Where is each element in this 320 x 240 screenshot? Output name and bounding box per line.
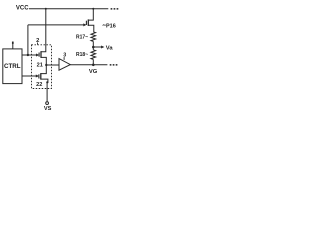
svg-text:R17~: R17~ xyxy=(76,34,88,40)
svg-text:P16: P16 xyxy=(106,24,116,30)
pointer line from label 3 to op-amp xyxy=(63,57,65,60)
svg-text:VG: VG xyxy=(89,69,98,75)
arrowhead into Q22 gate xyxy=(36,75,39,78)
svg-text:22: 22 xyxy=(36,82,42,88)
resistor R17 xyxy=(91,32,96,42)
transistor P16 channel bar xyxy=(87,19,89,26)
pointer line from label 2 to box xyxy=(37,43,39,45)
junction dot node Va xyxy=(92,46,95,49)
wire node to op-amp input xyxy=(46,64,59,66)
transistor P16 gate bar xyxy=(85,21,87,25)
wire P16 drop from VCC xyxy=(88,9,93,20)
junction dot VCC/left drop xyxy=(45,8,47,10)
op-amp U3 triangle xyxy=(59,59,70,71)
junction dot VCC/P16 drop xyxy=(92,8,94,10)
svg-text:21: 21 xyxy=(37,62,43,68)
wire node down to Q22 drain xyxy=(41,65,47,74)
wire CTRL top input stub xyxy=(12,42,14,49)
transistor Q22 source lead xyxy=(41,79,48,102)
junction dot node A xyxy=(27,54,29,56)
svg-text:VS: VS xyxy=(44,106,52,112)
svg-text:VCC: VCC xyxy=(16,6,29,12)
continuation dots VG line xyxy=(110,64,118,66)
svg-text:CTRL: CTRL xyxy=(4,63,21,70)
transistor P16 drain lead xyxy=(88,25,94,32)
svg-text:Va: Va xyxy=(106,46,114,52)
arrowhead into P16 gate xyxy=(83,23,86,26)
arrow to Va label xyxy=(93,46,102,48)
transistor Q22 channel bar xyxy=(40,73,42,80)
wire VCC rail xyxy=(29,8,108,10)
dashed box 2 xyxy=(32,45,52,89)
wire CTRL output 2 (gate of Q22) xyxy=(22,75,36,77)
wire R18 bottom to VG line xyxy=(92,59,94,64)
wire left drop from VCC to Q21 source xyxy=(41,9,46,52)
transistor Q21 channel bar xyxy=(40,51,42,58)
CTRL block xyxy=(3,49,22,84)
wire R17 to Va node xyxy=(92,41,94,49)
arrowhead into Q21 gate xyxy=(36,54,39,57)
wire P16 gate line from node A corner xyxy=(28,24,84,26)
terminal VS circle xyxy=(46,102,49,105)
transistor Q22 gate bar xyxy=(38,74,40,78)
junction dot VG node xyxy=(92,64,95,67)
continuation dots VCC rail xyxy=(111,8,119,10)
wire VG output line xyxy=(70,64,107,66)
transistor Q21 gate bar xyxy=(38,53,40,57)
junction dot Q21 drain node xyxy=(45,64,47,66)
label P16 xyxy=(103,24,106,27)
transistor Q21 drain lead xyxy=(41,57,46,65)
svg-text:R18~: R18~ xyxy=(76,52,88,58)
wire node A up to P16 gate line xyxy=(27,25,29,55)
wire CTRL output 1 (gate of Q21) xyxy=(22,54,37,56)
corner dot Q22 source bend xyxy=(46,81,48,83)
resistor R18 xyxy=(91,50,96,60)
